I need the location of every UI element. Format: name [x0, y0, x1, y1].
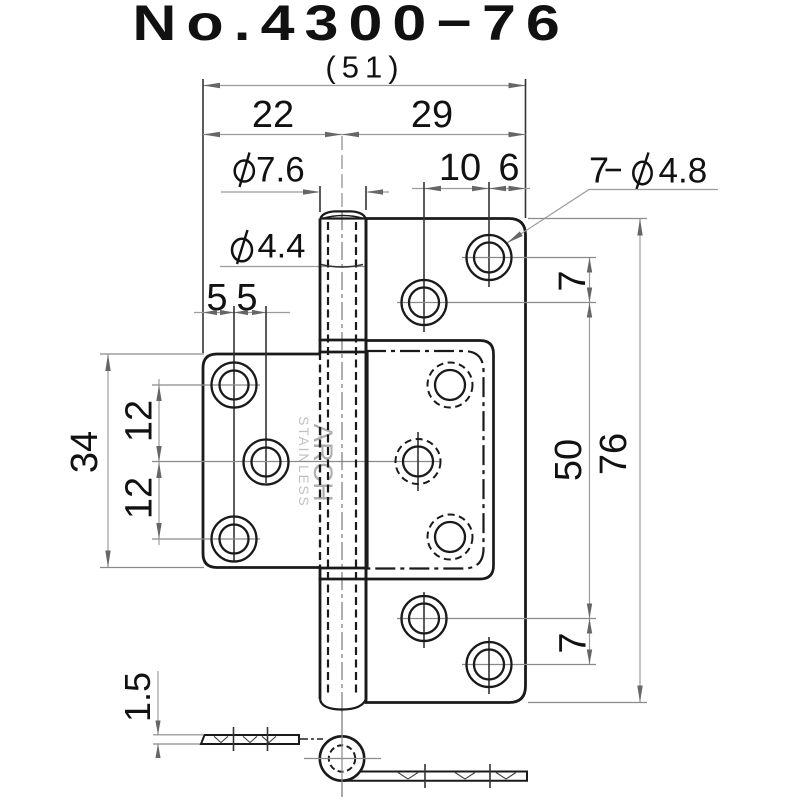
pin bottom dome [320, 699, 366, 710]
svg-text:(51): (51) [325, 50, 404, 85]
left plate body [203, 354, 320, 568]
dim line phi7.6 [221, 191, 318, 193]
svg-text:10: 10 [439, 147, 481, 189]
side view hole ticks left [233, 727, 235, 751]
knuckle joint line 4 [319, 578, 368, 581]
svg-text:No.4300−76: No.4300−76 [132, 0, 569, 51]
extension line y=354 [100, 353, 204, 355]
knuckle joint line 3 [319, 567, 368, 570]
pin hidden line left [327, 222, 329, 694]
extension line x=424 [423, 182, 425, 332]
svg-text:6: 6 [498, 147, 519, 189]
svg-text:22: 22 [252, 94, 294, 136]
dim line 7/50/7 [589, 258, 591, 665]
extension line y=735 [153, 734, 203, 736]
dim line 76 [639, 219, 641, 703]
extension line x=525.5 [525, 79, 527, 218]
crosshair x=424 lower [423, 592, 425, 648]
svg-text:7.6: 7.6 [256, 151, 305, 190]
folded leaf left edge behind barrel [367, 352, 369, 568]
extension line y=218.5 right [528, 218, 647, 220]
knuckle joint line 2 [319, 351, 368, 354]
dim text 7-phi4.8 [589, 150, 707, 191]
crosshair flap middle hole [417, 432, 419, 491]
leader phi4.4 [220, 266, 366, 268]
extension line x=266 [265, 306, 267, 483]
dim line 12/12 [158, 379, 160, 545]
extension line x=342 pin centre [341, 136, 343, 211]
side view hole ticks right [424, 764, 426, 788]
extension line y=257.5 [462, 257, 596, 259]
centreline vertical x=342 [341, 212, 343, 709]
extension line y=302.5 [397, 302, 596, 304]
dim line 5/5 [194, 312, 290, 314]
crosshair x=489 lower [488, 637, 490, 694]
dim 1.5 arrows [157, 671, 159, 735]
extension lines pin edges [319, 186, 321, 212]
side view right leaf [342, 772, 527, 781]
hole B2 right plate upper middle [402, 280, 447, 325]
extension line y=567.5 [100, 567, 204, 569]
right plate body [366, 219, 526, 703]
extension line x=203 [202, 79, 204, 353]
svg-text:76: 76 [593, 433, 635, 475]
extension line y=702.5 right [528, 702, 647, 704]
barrel rim [320, 217, 366, 219]
dim text phi4.4 [232, 228, 305, 266]
dim text phi7.6 [235, 151, 305, 190]
knuckle joint line 1 [319, 339, 368, 342]
knuckle crosshair [304, 758, 381, 760]
svg-text:12: 12 [119, 477, 161, 519]
hole A3 left plate bottom [212, 517, 257, 562]
side view knuckle [320, 736, 364, 780]
side view right leaf hatches [398, 773, 516, 780]
dim line (51) [203, 85, 526, 87]
folded leaf phantom outline [366, 351, 484, 569]
centre dash link [299, 738, 323, 740]
extension line y=385 [152, 384, 260, 386]
svg-text:1.5: 1.5 [117, 672, 158, 722]
svg-text:4.8: 4.8 [659, 152, 708, 191]
extension line y=539 [152, 538, 260, 540]
hole C2 folded leaf middle [396, 439, 441, 484]
svg-text:4.4: 4.4 [258, 228, 306, 266]
hole C1 folded leaf top [428, 363, 473, 408]
centreline y=462 [152, 461, 441, 463]
dim line 10/6 [412, 188, 530, 190]
flap seat outline solid [366, 341, 494, 580]
extension line x=234 [233, 306, 235, 562]
extension line y=664.5 [462, 664, 596, 666]
hole A2 left plate middle [244, 440, 289, 485]
extension line y=618.5 [397, 618, 596, 620]
barrel left edge [319, 219, 322, 353]
pin shoulder arc [321, 265, 363, 268]
svg-text:29: 29 [411, 94, 453, 136]
hole A1 left plate top [212, 363, 257, 408]
svg-text:12: 12 [119, 400, 161, 442]
extension line y=743.5 [153, 743, 203, 745]
hole C3 folded leaf bottom [428, 515, 473, 560]
side view left leaf hatches [214, 736, 276, 742]
pin hidden line right [355, 222, 357, 694]
svg-text:34: 34 [64, 431, 106, 473]
dim line 34 [107, 354, 109, 568]
barrel right edge [365, 219, 368, 700]
svg-text:50: 50 [548, 439, 590, 481]
svg-text:ARCH: ARCH [308, 424, 338, 503]
side view left leaf [201, 735, 299, 744]
extension line x=489 [488, 182, 490, 287]
leader 7-phi4.8 [507, 190, 718, 244]
hole B4 right plate bottom right [467, 642, 512, 687]
dim line 22/29 [203, 134, 526, 136]
hole B1 right plate top right [467, 235, 512, 280]
hole B3 right plate lower middle [402, 596, 447, 641]
pin head [321, 211, 366, 218]
